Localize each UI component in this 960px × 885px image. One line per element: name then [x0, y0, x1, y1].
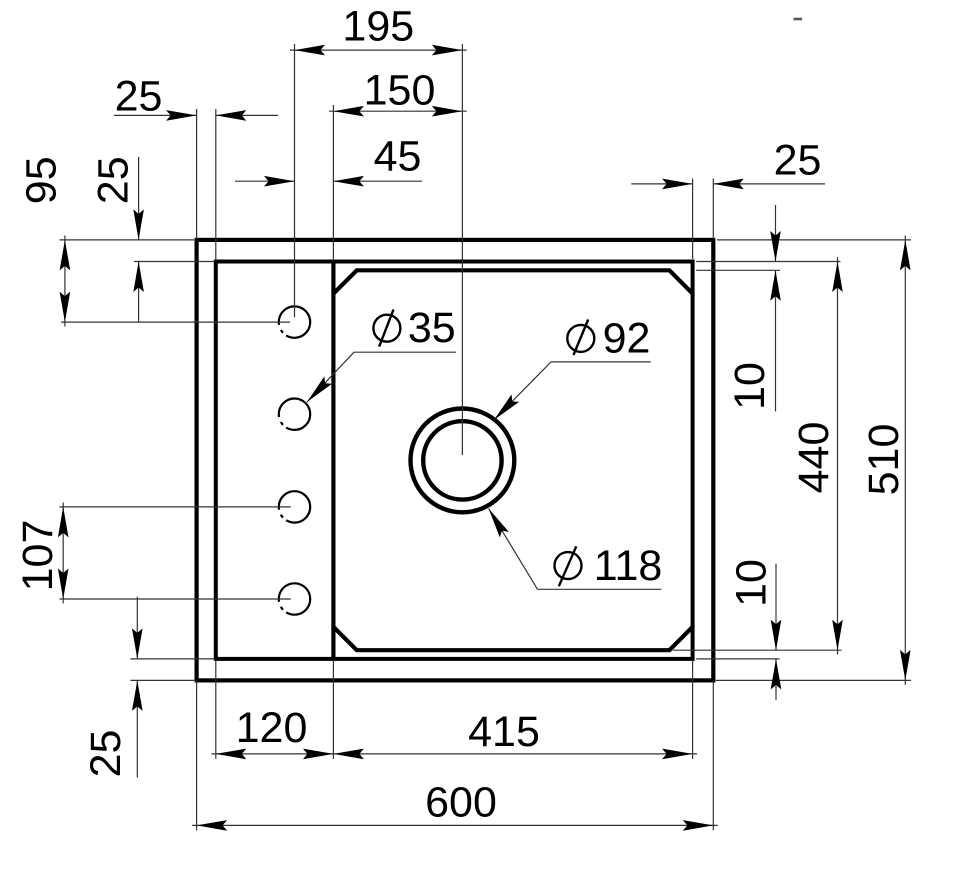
svg-text:35: 35: [408, 304, 456, 352]
svg-text:45: 45: [374, 133, 422, 181]
svg-text:25: 25: [774, 137, 822, 185]
svg-text:25: 25: [115, 73, 163, 121]
svg-text:195: 195: [342, 3, 414, 51]
svg-text:510: 510: [860, 424, 908, 496]
svg-text:25: 25: [82, 730, 130, 778]
svg-text:150: 150: [364, 67, 436, 115]
svg-text:10: 10: [728, 559, 776, 607]
svg-text:440: 440: [790, 422, 838, 494]
svg-text:415: 415: [468, 708, 540, 756]
svg-text:107: 107: [14, 520, 62, 592]
svg-text:118: 118: [594, 542, 663, 590]
svg-text:95: 95: [18, 156, 66, 204]
svg-text:25: 25: [90, 156, 138, 204]
svg-text:120: 120: [236, 704, 308, 752]
svg-text:92: 92: [603, 315, 651, 363]
svg-text:10: 10: [726, 362, 774, 410]
svg-text:600: 600: [425, 779, 497, 827]
